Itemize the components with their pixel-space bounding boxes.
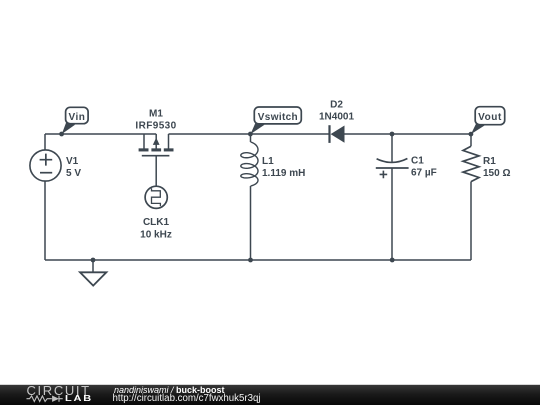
- svg-text:IRF9530: IRF9530: [135, 121, 176, 132]
- svg-text:67 µF: 67 µF: [411, 168, 437, 179]
- node label Vswitch: [251, 107, 302, 134]
- voltage source V1: [30, 150, 61, 181]
- wire: bottom ground rail: [45, 259, 471, 261]
- junction dot L1 bottom: [248, 258, 253, 263]
- junction dot C1 top: [390, 132, 395, 137]
- label M1 name: [135, 109, 176, 132]
- node Vout junction dot: [469, 132, 474, 137]
- svg-text:L1: L1: [262, 156, 274, 167]
- wire: top rail from V1 corner to M1 source/body junction: [45, 133, 156, 135]
- CircuitLab logo circuit glyph (resistor+diode): [26, 395, 66, 403]
- svg-text:5 V: 5 V: [66, 168, 81, 179]
- svg-text:10 kHz: 10 kHz: [140, 230, 172, 241]
- diode D2: [330, 125, 345, 143]
- label C1 value: [411, 156, 437, 179]
- node label Vin: [62, 107, 88, 134]
- svg-text:Vout: Vout: [478, 112, 502, 123]
- transistor M1 (PMOS): [139, 134, 174, 186]
- svg-text:R1: R1: [483, 156, 496, 167]
- ground: [80, 260, 106, 286]
- label D2 name: [319, 100, 354, 123]
- footer url: [113, 393, 261, 404]
- svg-text:1.119 mH: 1.119 mH: [262, 168, 305, 179]
- M1 body arrow: [153, 138, 160, 145]
- junction dot ground: [91, 258, 96, 263]
- footer project title: [114, 385, 225, 395]
- svg-text:Vswitch: Vswitch: [258, 112, 298, 123]
- svg-text:C1: C1: [411, 156, 424, 167]
- label L1 value: [262, 156, 305, 179]
- svg-text:V1: V1: [66, 156, 79, 167]
- CircuitLab logo wordmark LAB: [65, 394, 93, 403]
- node label Vout: [471, 107, 505, 134]
- svg-text:Vin: Vin: [68, 112, 85, 123]
- junction dot C1 bottom: [390, 258, 395, 263]
- wire: top rail from D2 anode to Vout corner: [345, 133, 472, 135]
- svg-text:M1: M1: [149, 109, 163, 120]
- label V1 value: [66, 156, 81, 179]
- resistor R1: [463, 134, 479, 260]
- wire: left rail (V1 branch): [44, 134, 46, 260]
- wire: top rail from M1 drain to D2 cathode: [169, 133, 331, 135]
- label CLK1 value: [140, 217, 172, 241]
- capacitor C1 (polarized): [376, 134, 409, 260]
- svg-text:150 Ω: 150 Ω: [483, 168, 510, 179]
- node Vswitch junction dot: [248, 132, 253, 137]
- CircuitLab logo wordmark CIRCUIT: [27, 383, 91, 398]
- node Vin junction dot: [59, 132, 64, 137]
- clock source CLK1: [145, 186, 167, 208]
- label R1 value: [483, 156, 510, 179]
- svg-text:D2: D2: [330, 100, 343, 111]
- footer bar: [0, 384, 540, 405]
- inductor L1: [241, 134, 258, 260]
- svg-text:1N4001: 1N4001: [319, 112, 354, 123]
- svg-text:CLK1: CLK1: [143, 217, 170, 228]
